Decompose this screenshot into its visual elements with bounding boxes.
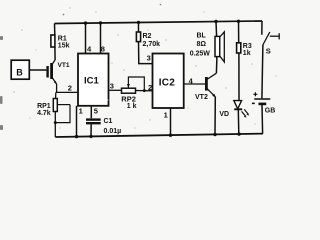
capacitor coupling plate <box>46 66 48 78</box>
svg-text:R2: R2 <box>143 33 152 40</box>
resistor R2 270k <box>136 22 152 63</box>
svg-text:C1: C1 <box>104 118 113 125</box>
svg-text:B: B <box>16 68 23 78</box>
wire IC2 pin 4 to VT2 base <box>184 83 206 85</box>
op-amp IC2 <box>153 54 184 109</box>
svg-text:4.7k: 4.7k <box>37 110 51 117</box>
wire top supply rail <box>55 21 263 24</box>
svg-text:3: 3 <box>147 54 151 63</box>
op-amp IC1 <box>78 54 109 106</box>
svg-text:8Ω: 8Ω <box>197 41 207 48</box>
transistor VT1 <box>52 60 57 92</box>
svg-text:VT2: VT2 <box>195 94 208 101</box>
node rail junction dots <box>84 20 240 25</box>
potentiometer RP1 4.7k <box>53 92 70 137</box>
svg-text:BL: BL <box>197 33 207 40</box>
svg-text:15k: 15k <box>58 43 70 50</box>
svg-text:R1: R1 <box>58 36 67 43</box>
svg-text:S: S <box>266 47 271 56</box>
transistor VT2 <box>206 73 216 134</box>
svg-text:5: 5 <box>94 107 98 116</box>
svg-text:IC1: IC1 <box>84 76 100 87</box>
svg-text:VD: VD <box>219 111 229 118</box>
switch S <box>262 21 279 98</box>
diode VD LED <box>234 101 249 135</box>
svg-text:R3: R3 <box>243 43 252 50</box>
wire IC1 pin 3 <box>109 89 122 91</box>
svg-text:0.01µ: 0.01µ <box>104 128 122 135</box>
svg-text:1: 1 <box>164 110 168 119</box>
svg-text:2: 2 <box>148 83 152 92</box>
svg-text:1k: 1k <box>243 50 251 57</box>
svg-text:3: 3 <box>110 81 114 90</box>
wire IC2 pin 1 <box>170 108 172 135</box>
battery GB <box>252 92 270 133</box>
capacitor C1 0.01u <box>86 120 101 137</box>
speaker BL 8ohm 0.25W <box>215 22 224 74</box>
svg-text:1: 1 <box>79 107 83 116</box>
scan edge marks <box>0 4 161 130</box>
potentiometer RP2 1k <box>122 77 153 93</box>
wire VT1 emitter to IC1 pin 2 <box>56 91 78 93</box>
svg-text:2,70k: 2,70k <box>143 41 161 48</box>
svg-text:2: 2 <box>68 84 72 93</box>
wire IC1 pin 4 <box>85 23 87 53</box>
svg-text:GB: GB <box>265 107 276 114</box>
svg-text:8: 8 <box>101 45 105 54</box>
microphone B <box>11 60 46 79</box>
svg-text:IC2: IC2 <box>159 78 175 89</box>
wire IC1 pin 1 <box>76 106 78 137</box>
node ground junction dots <box>75 132 241 138</box>
wire IC1 pin 8 <box>100 23 102 54</box>
svg-text:1 k: 1 k <box>127 103 137 110</box>
resistor R1 15k <box>51 24 55 61</box>
wire bottom ground rail <box>55 134 263 137</box>
wire IC1 pin 5 <box>90 106 92 119</box>
svg-text:VT1: VT1 <box>58 62 70 69</box>
resistor R3 1k <box>237 21 241 101</box>
svg-text:0.25W: 0.25W <box>190 50 211 57</box>
